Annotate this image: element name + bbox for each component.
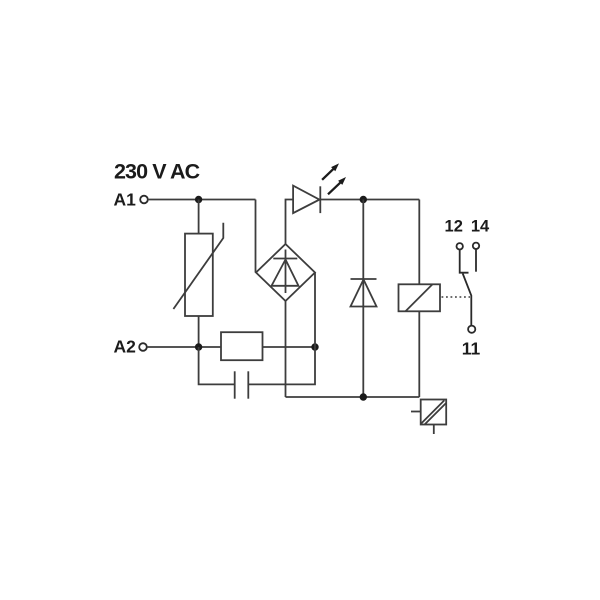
contact fixed lead 12: [460, 250, 469, 273]
contact terminal 12: [457, 243, 463, 249]
wire relay top lead: [418, 200, 420, 285]
wire A1 horizontal: [147, 199, 255, 201]
output box left tick: [411, 411, 421, 413]
junction dot LED/diode node: [360, 196, 367, 203]
svg-text:11: 11: [462, 339, 481, 359]
LED arrow 2: [328, 177, 346, 194]
diode: [351, 279, 377, 307]
wire varistor top lead: [198, 200, 200, 234]
svg-text:14: 14: [471, 218, 490, 236]
wire freewheeling diode branch: [362, 200, 364, 398]
contact fixed lead 14: [475, 249, 477, 272]
terminal A2: [139, 343, 147, 351]
terminal A1: [140, 196, 148, 204]
wire bridge top lead to LED: [286, 200, 294, 245]
contact terminal 11: [468, 326, 475, 333]
svg-text:A2: A2: [114, 337, 137, 357]
bridge rectifier: [256, 244, 315, 301]
contact terminal 14: [473, 243, 479, 249]
relay coil K1: [399, 284, 441, 311]
junction dot diode/bottom node: [360, 393, 367, 400]
output box bottom tick: [433, 425, 435, 435]
LED: [293, 186, 320, 214]
wire bridge right lead: [314, 273, 316, 348]
mechanical link dotted line: [442, 296, 471, 298]
junction dot resistor/bridge node: [311, 343, 318, 350]
wire A2 node down to capacitor: [199, 347, 235, 384]
wire bottom return: [286, 396, 420, 398]
wire resistor to bridge node: [263, 346, 316, 348]
svg-text:230 V AC: 230 V AC: [114, 159, 200, 183]
junction dot A2/varistor node: [195, 343, 202, 350]
contact moving arm: [463, 274, 472, 326]
wire LED to relay: [320, 199, 419, 201]
wire varistor bottom lead: [198, 316, 200, 347]
svg-text:12: 12: [445, 218, 463, 236]
wire relay bottom lead: [418, 311, 420, 397]
wire A2 to resistor: [147, 346, 221, 348]
output module box: [421, 400, 447, 425]
svg-text:A1: A1: [114, 190, 137, 210]
varistor: [173, 223, 223, 316]
capacitor: [235, 371, 249, 398]
wire bridge AC left lead: [255, 200, 257, 273]
junction dot A1/varistor node: [195, 196, 202, 203]
LED arrow 1: [322, 163, 339, 179]
wire bridge bottom lead: [285, 301, 287, 397]
wire capacitor to bridge node: [248, 347, 315, 384]
resistor: [221, 332, 263, 360]
